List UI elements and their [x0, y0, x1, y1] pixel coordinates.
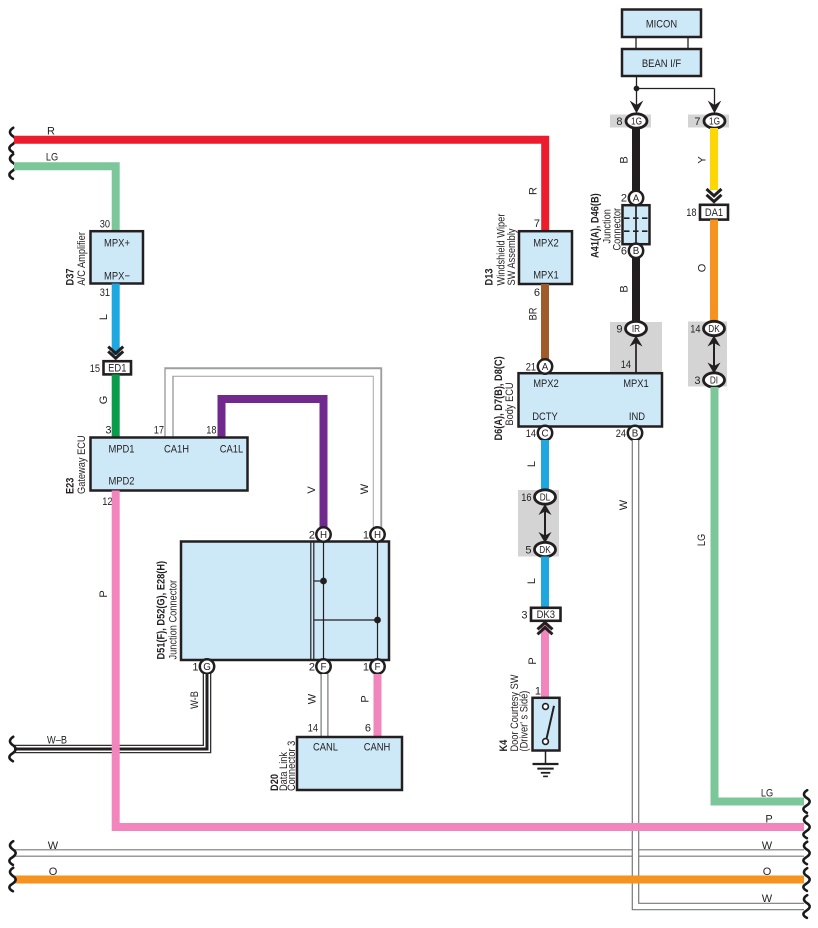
svg-text:30: 30 — [100, 219, 110, 231]
wire L from Body ECU DCTY to DL — [526, 440, 545, 491]
brace left of wire R — [9, 128, 15, 152]
block BEAN I/F — [622, 49, 701, 76]
svg-text:LG: LG — [761, 788, 773, 800]
svg-text:L: L — [98, 314, 110, 320]
svg-text:BEAN I/F: BEAN I/F — [642, 58, 681, 70]
ECU D6(A), D7(B), D8(C) Body ECU — [493, 356, 662, 440]
wire R from left edge to D13 MPX2 — [14, 125, 545, 231]
svg-text:7: 7 — [534, 218, 540, 230]
block MICON — [622, 10, 701, 38]
brace right of wire LG — [803, 790, 809, 813]
svg-text:IR: IR — [632, 324, 640, 335]
switch K4 Door Courtesy SW (Driver's Side) — [498, 674, 560, 752]
svg-text:A: A — [633, 193, 640, 204]
svg-text:1: 1 — [535, 686, 541, 698]
svg-text:Connector: Connector — [612, 208, 624, 251]
svg-text:DK: DK — [539, 545, 551, 556]
svg-text:MICON: MICON — [646, 18, 677, 30]
wire P from DK3 to K4 pin 1 — [527, 625, 545, 699]
svg-text:CANL: CANL — [313, 742, 338, 754]
svg-text:DL: DL — [540, 492, 551, 503]
svg-text:G: G — [203, 662, 211, 673]
connector pass-through IR (gray) above Body ECU MPX1 — [610, 321, 662, 373]
svg-text:Y: Y — [697, 156, 709, 164]
svg-text:P: P — [527, 657, 539, 664]
svg-text:MPX2: MPX2 — [533, 238, 559, 250]
svg-text:F: F — [321, 662, 327, 673]
svg-text:O: O — [49, 866, 58, 878]
svg-text:ED1: ED1 — [108, 363, 126, 375]
svg-text:MPX+: MPX+ — [104, 238, 130, 250]
svg-text:R: R — [528, 187, 540, 195]
brace right of wire W lower — [803, 895, 809, 918]
wire B from A41 pin 6 to IR — [619, 258, 637, 322]
wire LG from left edge to D37 pin 30 — [14, 151, 116, 231]
svg-text:A41(A), D46(B): A41(A), D46(B) — [590, 193, 602, 258]
svg-text:E23: E23 — [65, 478, 77, 494]
svg-text:CA1L: CA1L — [220, 444, 244, 456]
connector DA1 pin 18 — [686, 205, 728, 220]
svg-text:SW Assembly: SW Assembly — [506, 228, 518, 285]
svg-text:P: P — [360, 695, 372, 702]
wire W from Body ECU IND pin 24 down and right to edge — [618, 440, 804, 907]
svg-text:L: L — [526, 578, 538, 584]
wire L from D37 pin 31 to ED1 — [98, 284, 116, 356]
svg-text:W: W — [618, 499, 630, 510]
chevron arrows below DK3 (pointing up) — [538, 623, 553, 635]
brace right of wire O — [803, 868, 809, 891]
svg-text:MPD1: MPD1 — [108, 444, 134, 456]
wire BR from D13 MPX1 to Body ECU pin 21 — [528, 284, 546, 360]
svg-text:3: 3 — [521, 610, 527, 622]
svg-text:A: A — [542, 362, 549, 373]
svg-text:P: P — [765, 814, 772, 826]
wire V from E23 CA1L to junction H2 — [222, 399, 324, 528]
svg-text:18: 18 — [686, 207, 696, 219]
svg-text:L: L — [526, 461, 538, 467]
junction connector D51(F), D52(G), E28(H) — [156, 527, 390, 673]
wire MICON to BEAN I/F (two links) — [636, 38, 688, 50]
svg-text:1G: 1G — [709, 116, 720, 127]
wire P from F1 to D20 CANH — [360, 674, 378, 738]
svg-text:W: W — [762, 840, 773, 852]
svg-text:Junction Connector: Junction Connector — [168, 580, 180, 660]
svg-text:12: 12 — [102, 496, 112, 508]
svg-text:3: 3 — [694, 375, 700, 387]
wire W horizontal bus to left edge — [14, 840, 804, 853]
connector D20 Data Link Connector 3 — [269, 723, 402, 792]
brace left of wire O bus — [9, 868, 15, 891]
svg-text:MPX2: MPX2 — [533, 378, 559, 390]
svg-text:DCTY: DCTY — [532, 411, 558, 423]
connector 7 (1G) — [688, 114, 729, 128]
svg-text:3: 3 — [105, 425, 111, 437]
svg-text:18: 18 — [206, 425, 216, 437]
svg-text:14: 14 — [308, 723, 318, 735]
svg-text:1: 1 — [363, 530, 369, 542]
chevron arrows above DA1 — [707, 189, 722, 202]
svg-text:MPX1: MPX1 — [623, 378, 649, 390]
svg-text:O: O — [763, 866, 772, 878]
connector 8 (1G) — [610, 114, 651, 128]
svg-text:9: 9 — [616, 324, 622, 336]
svg-text:LG: LG — [46, 151, 58, 163]
svg-text:2: 2 — [309, 530, 315, 542]
connector DK3 pin 3 — [521, 608, 560, 622]
svg-text:D37: D37 — [65, 269, 77, 286]
svg-text:MPX−: MPX− — [104, 271, 130, 283]
svg-text:V: V — [306, 486, 318, 494]
svg-text:14: 14 — [526, 428, 536, 440]
wire Y from 1G to DA1 — [697, 128, 715, 190]
svg-text:DK3: DK3 — [537, 609, 555, 621]
svg-text:G: G — [98, 396, 110, 405]
arrowhead into 8(1G) — [630, 101, 644, 114]
wire B from 1G to A41 pin 2 — [619, 128, 637, 192]
ECU E23 Gateway ECU — [65, 425, 248, 509]
svg-text:D13: D13 — [484, 269, 496, 286]
ECU D13 Windshield Wiper SW Assembly — [484, 213, 573, 299]
brace left of wire W-B — [9, 737, 15, 761]
wire O from DA1 to DK — [697, 220, 715, 323]
brace left of wire W bus — [9, 841, 15, 865]
svg-text:6: 6 — [534, 287, 540, 299]
svg-text:H: H — [374, 530, 381, 541]
svg-text:14: 14 — [621, 359, 631, 371]
wire W-B from G1 down and left to edge — [14, 674, 207, 749]
svg-text:W: W — [762, 893, 773, 905]
svg-text:W-B: W-B — [189, 691, 201, 709]
svg-text:Body ECU: Body ECU — [504, 382, 516, 425]
ECU D37 A/C Amplifier — [65, 219, 144, 300]
svg-text:B: B — [619, 285, 631, 292]
svg-text:1: 1 — [192, 662, 198, 674]
svg-text:B: B — [619, 156, 631, 163]
svg-text:DI: DI — [710, 375, 718, 386]
svg-text:MPD2: MPD2 — [108, 476, 134, 488]
svg-text:MPX1: MPX1 — [533, 270, 559, 282]
svg-text:2: 2 — [621, 193, 627, 205]
svg-text:21: 21 — [526, 362, 536, 374]
wire BEAN I/F to connectors 1G — [637, 77, 715, 112]
svg-text:BR: BR — [528, 308, 540, 321]
svg-text:P: P — [98, 590, 110, 597]
svg-text:W: W — [48, 840, 59, 852]
svg-text:14: 14 — [690, 324, 700, 336]
svg-text:5: 5 — [525, 545, 531, 557]
brace left of wire LG — [9, 154, 15, 179]
svg-text:W: W — [307, 693, 319, 704]
svg-text:B: B — [632, 428, 639, 439]
wire L from DK to DK3 — [526, 557, 545, 608]
svg-text:7: 7 — [694, 116, 700, 128]
svg-text:1: 1 — [363, 662, 369, 674]
svg-text:1G: 1G — [631, 116, 642, 127]
svg-text:8: 8 — [616, 116, 622, 128]
svg-text:16: 16 — [521, 492, 531, 504]
svg-text:F: F — [375, 662, 381, 673]
junction connector A41(A), D46(B) — [590, 191, 650, 258]
wire W from F2 to D20 CANL — [307, 674, 325, 738]
svg-text:D51(F), D52(G), E28(H): D51(F), D52(G), E28(H) — [156, 561, 168, 660]
connector pass-through DK / DI (gray) — [688, 321, 727, 387]
svg-text:B: B — [633, 246, 640, 257]
svg-text:DK: DK — [708, 324, 720, 335]
connector pass-through DL / DK (gray) — [518, 490, 559, 557]
wire O horizontal bus — [14, 866, 804, 879]
svg-text:Connector 3: Connector 3 — [286, 741, 298, 791]
brace right of wire P — [803, 816, 809, 838]
brace right of wire W — [803, 842, 809, 864]
svg-text:W: W — [359, 483, 371, 494]
svg-text:R: R — [47, 125, 55, 137]
arrowhead into 7(1G) — [708, 101, 722, 114]
svg-text:2: 2 — [309, 662, 315, 674]
svg-text:LG: LG — [696, 534, 708, 546]
wire G from ED1 to E23 MPD1 — [98, 374, 116, 438]
svg-text:24: 24 — [616, 428, 626, 440]
svg-text:O: O — [697, 263, 709, 272]
chevron arrows above ED1 — [108, 347, 123, 359]
svg-text:Gateway ECU: Gateway ECU — [76, 435, 88, 494]
wire LG from DI down and right to edge — [696, 387, 804, 802]
svg-text:31: 31 — [100, 287, 110, 299]
ground below K4 — [533, 751, 559, 777]
svg-text:IND: IND — [629, 411, 645, 423]
node junction dot — [634, 86, 640, 92]
svg-text:C: C — [541, 428, 548, 439]
wire W loop from E23 CA1H to junction H1 — [169, 372, 378, 528]
svg-text:CA1H: CA1H — [164, 444, 189, 456]
connector ED1 pin 15 — [90, 361, 131, 375]
svg-text:15: 15 — [90, 363, 100, 375]
svg-text:A/C Amplifier: A/C Amplifier — [76, 232, 88, 286]
svg-text:W–B: W–B — [47, 734, 67, 746]
svg-text:DA1: DA1 — [705, 207, 723, 219]
svg-text:CANH: CANH — [364, 742, 391, 754]
svg-text:H: H — [320, 530, 327, 541]
svg-text:6: 6 — [365, 723, 371, 735]
svg-text:17: 17 — [154, 425, 164, 437]
wire P bus from E23 pin 12 to right edge — [98, 491, 804, 828]
svg-text:(Driver' s Side): (Driver' s Side) — [519, 691, 531, 752]
